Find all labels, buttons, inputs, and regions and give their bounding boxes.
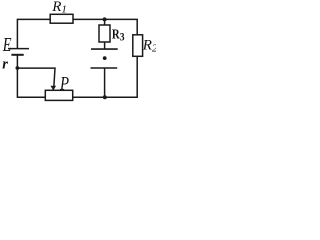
svg-text:E: E — [2, 32, 12, 55]
svg-text:r: r — [2, 56, 8, 72]
svg-text:P: P — [59, 73, 69, 94]
